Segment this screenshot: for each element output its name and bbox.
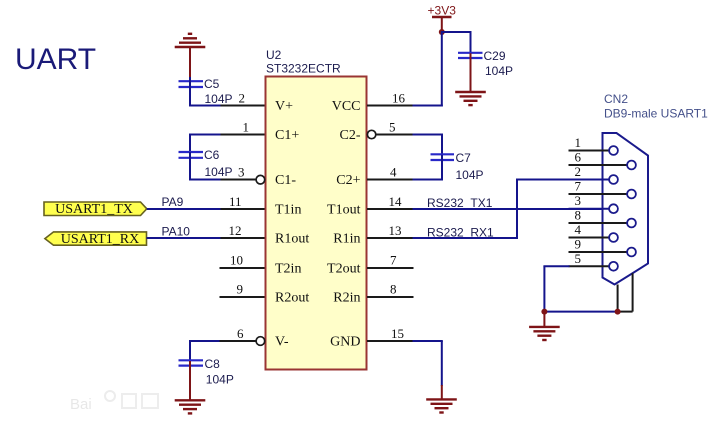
- svg-text:1: 1: [243, 120, 250, 135]
- U2 pin 5 (C2-) with inverting bubble: [367, 120, 413, 139]
- svg-text:9: 9: [237, 282, 244, 297]
- svg-text:T1in: T1in: [275, 203, 301, 218]
- CN2 pin 6: [569, 150, 636, 170]
- svg-text:R2out: R2out: [275, 291, 309, 306]
- wire CN2 pin 5 to ground net: [543, 266, 618, 312]
- ground below CN2 shield: [529, 327, 560, 340]
- wire junction to ground (red stub): [543, 312, 545, 327]
- CN2 pin 3: [569, 193, 618, 213]
- connector CN2 DB9-male USART1: [603, 92, 709, 285]
- svg-text:10: 10: [230, 253, 243, 268]
- svg-text:GND: GND: [330, 335, 360, 350]
- svg-text:V+: V+: [275, 99, 293, 114]
- capacitor C5 104P: [179, 77, 233, 106]
- svg-text:16: 16: [392, 91, 406, 106]
- U2 pin 2 (V+): [220, 91, 265, 106]
- svg-text:C1-: C1-: [275, 173, 296, 188]
- U2 pin 4 (C2+): [367, 165, 414, 180]
- U2 pin 15 (GND): [367, 326, 414, 341]
- capacitor C8 104P: [179, 357, 234, 387]
- svg-text:R1out: R1out: [275, 232, 309, 247]
- svg-text:4: 4: [575, 222, 582, 237]
- svg-text:ST3232ECTR: ST3232ECTR: [266, 62, 341, 76]
- CN2 pin 4: [569, 222, 618, 242]
- svg-text:4: 4: [390, 165, 397, 180]
- svg-text:PA10: PA10: [162, 225, 191, 239]
- svg-text:C2-: C2-: [340, 128, 361, 143]
- svg-text:9: 9: [575, 237, 582, 252]
- svg-text:6: 6: [575, 150, 582, 165]
- svg-text:C6: C6: [204, 148, 220, 162]
- svg-text:Bai: Bai: [70, 396, 92, 413]
- svg-text:C29: C29: [484, 49, 506, 63]
- svg-text:6: 6: [237, 326, 244, 341]
- svg-text:C1+: C1+: [275, 128, 299, 143]
- svg-text:104P: 104P: [456, 168, 484, 182]
- svg-text:15: 15: [391, 326, 404, 341]
- svg-text:12: 12: [229, 223, 242, 238]
- wire U2 pin 15 (GND) to ground: [413, 341, 443, 399]
- svg-text:2: 2: [575, 164, 582, 179]
- wire U2 pin 5 (C2-) to C7: [413, 135, 444, 160]
- wire USART1_TX to U2 pin 11: [147, 208, 221, 210]
- U2 pin 14 (T1out): [367, 194, 414, 209]
- U2 pin 8 (R2in): [367, 282, 414, 298]
- wire C6 to U2 pin 3: [189, 152, 221, 180]
- junction shield-ground node left: [541, 309, 547, 315]
- svg-text:T2out: T2out: [327, 262, 361, 277]
- power +3V3: [428, 4, 457, 33]
- svg-text:3: 3: [575, 193, 582, 208]
- junction shield-ground node right: [615, 309, 621, 315]
- svg-text:7: 7: [390, 253, 397, 268]
- wire C5 to U2 pin 2: [189, 77, 221, 106]
- IC U2 ST3232ECTR body: [266, 48, 367, 370]
- ground below U2 pin 15: [426, 399, 457, 412]
- svg-text:1: 1: [575, 135, 582, 150]
- svg-text:7: 7: [575, 179, 582, 194]
- CN2 pin 7: [569, 179, 636, 199]
- svg-text:C8: C8: [205, 357, 221, 371]
- svg-text:UART: UART: [15, 43, 96, 76]
- svg-text:3: 3: [238, 165, 245, 180]
- capacitor C7 104P: [431, 151, 484, 182]
- CN2 pin 8: [569, 208, 636, 228]
- svg-text:C2+: C2+: [336, 173, 360, 188]
- capacitor C29 104P: [458, 49, 513, 78]
- U2 pin 3 (C1-) with inverting bubble: [220, 165, 265, 185]
- svg-text:13: 13: [389, 223, 402, 238]
- svg-text:V-: V-: [275, 335, 289, 350]
- svg-text:USART1_TX: USART1_TX: [55, 202, 133, 217]
- wire C7 to U2 pin 4 (C2+): [413, 155, 444, 181]
- svg-text:PA9: PA9: [162, 195, 184, 209]
- svg-text:U2: U2: [266, 48, 282, 62]
- U2 pin 6 (V-) with inverting bubble: [220, 326, 265, 345]
- svg-text:2: 2: [239, 91, 246, 106]
- wire C29 to ground (red stub): [470, 53, 472, 92]
- U2 pin 13 (R1in): [367, 223, 414, 238]
- svg-text:104P: 104P: [205, 165, 233, 179]
- wire ground to C5 (red stub): [189, 47, 191, 77]
- capacitor C6 104P: [179, 148, 233, 179]
- svg-text:5: 5: [575, 251, 582, 266]
- CN2 pin 2: [569, 164, 618, 184]
- svg-text:RS232_TX1: RS232_TX1: [427, 196, 493, 210]
- CN2 pin 5: [569, 251, 618, 271]
- svg-text:VCC: VCC: [332, 99, 361, 114]
- CN2 shield stub left: [617, 285, 619, 312]
- wire U2 pin 1 down to C6: [189, 135, 221, 159]
- junction +3V3 node: [439, 29, 445, 35]
- U2 pin 7 (T2out): [367, 253, 414, 269]
- ground above C5 (inverted earth): [175, 34, 206, 47]
- svg-text:CN2: CN2: [604, 92, 628, 106]
- U2 pin 16 (VCC): [367, 91, 414, 106]
- svg-text:T2in: T2in: [275, 262, 301, 277]
- U2 pin 1 (C1+): [220, 120, 265, 135]
- svg-text:8: 8: [390, 282, 397, 297]
- wire RS232_TX1: U2 pin 14 to CN2 pin 3: [413, 208, 610, 210]
- svg-text:DB9-male USART1: DB9-male USART1: [604, 107, 708, 121]
- svg-text:14: 14: [389, 194, 403, 209]
- wire USART1_RX to U2 pin 12: [147, 237, 221, 239]
- port USART1_RX: [45, 232, 147, 247]
- U2 pin 12 (R1out): [220, 223, 265, 238]
- svg-text:8: 8: [575, 208, 582, 223]
- svg-text:11: 11: [229, 194, 242, 209]
- svg-text:C7: C7: [456, 151, 472, 165]
- wire U2 pin 6 to C8: [189, 341, 220, 365]
- svg-text:+3V3: +3V3: [428, 4, 457, 18]
- U2 pin 9 (R2out): [220, 282, 265, 298]
- svg-text:104P: 104P: [205, 92, 233, 106]
- wire RS232_RX1: U2 pin 13 to CN2 pin 2: [413, 179, 570, 239]
- U2 pin 10 (T2in): [220, 253, 265, 269]
- svg-text:104P: 104P: [485, 64, 513, 78]
- CN2 pin 1: [569, 135, 618, 155]
- svg-text:C5: C5: [204, 77, 220, 91]
- wire +3V3 junction to C29: [442, 31, 471, 58]
- ground below C29: [455, 92, 486, 105]
- U2 pin 11 (T1in): [220, 194, 265, 209]
- CN2 shield stub right: [618, 273, 633, 311]
- svg-text:USART1_RX: USART1_RX: [61, 232, 140, 247]
- svg-text:T1out: T1out: [327, 203, 361, 218]
- wire C8 to ground (red stub): [189, 361, 191, 400]
- ground below C8: [175, 400, 206, 413]
- svg-text:5: 5: [389, 120, 396, 135]
- svg-text:R2in: R2in: [333, 291, 360, 306]
- wire +3V3 to U2 pin 16 (VCC): [413, 31, 443, 107]
- port USART1_TX: [44, 202, 147, 217]
- CN2 pin 9: [569, 237, 636, 257]
- sheet title UART: [15, 43, 96, 76]
- watermark (decorative): [70, 391, 158, 413]
- svg-text:R1in: R1in: [333, 232, 360, 247]
- svg-text:104P: 104P: [206, 373, 234, 387]
